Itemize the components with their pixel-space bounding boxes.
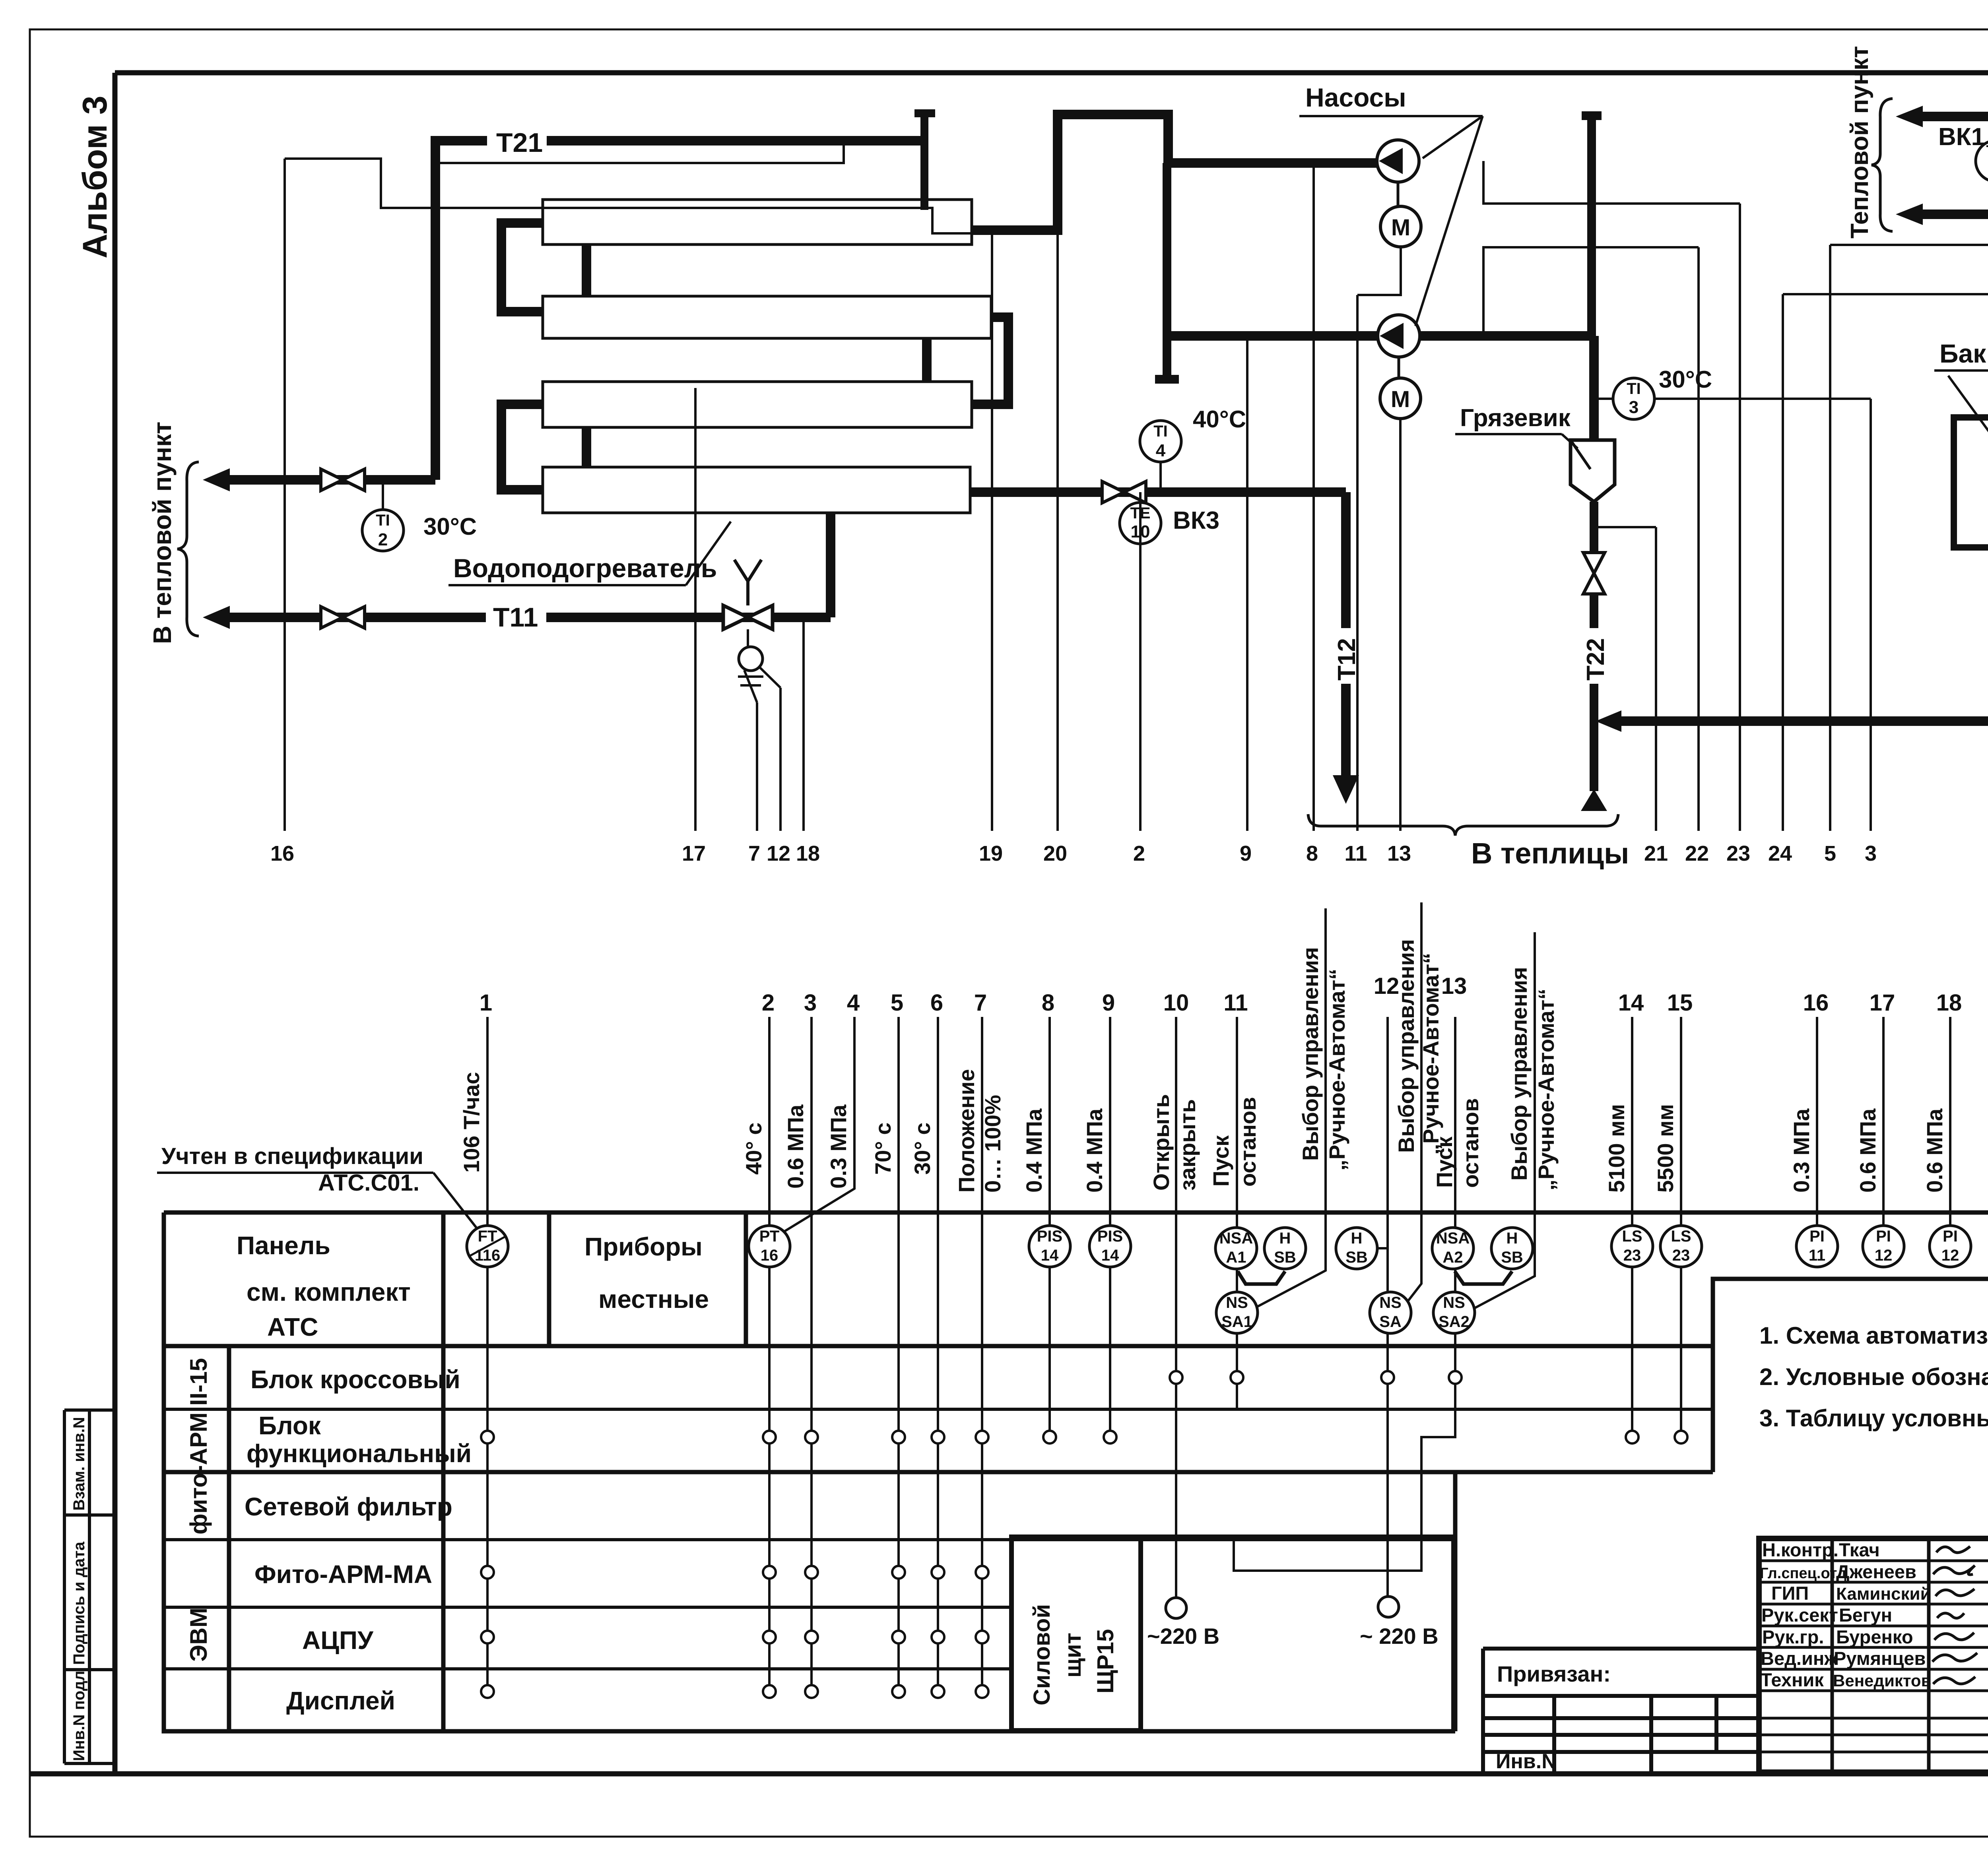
svg-text:Блок кроссовый: Блок кроссовый <box>250 1365 460 1394</box>
power supply circle 2 with ~220 В <box>1378 1597 1399 1617</box>
svg-text:8: 8 <box>1042 990 1054 1016</box>
svg-text:0.3 МПа: 0.3 МПа <box>826 1104 851 1189</box>
svg-text:Альбом 3: Альбом 3 <box>76 96 114 258</box>
thermometer TI2 <box>382 480 384 510</box>
svg-text:Н: Н <box>1279 1230 1291 1247</box>
table row line under panel row <box>164 1344 1713 1348</box>
svg-text:15: 15 <box>1667 990 1693 1016</box>
table outline <box>164 1212 1988 1731</box>
svg-text:Т21: Т21 <box>496 128 543 158</box>
title block columns signatures <box>1832 1538 1988 1772</box>
svg-text:14: 14 <box>1041 1247 1059 1264</box>
svg-text:3: 3 <box>1629 398 1639 417</box>
svg-text:NSА: NSА <box>1436 1230 1470 1247</box>
T21 dead-end pin <box>914 113 935 210</box>
svg-text:Буренко: Буренко <box>1836 1626 1913 1647</box>
pipe tank bottom return to Т22 <box>1615 547 1988 721</box>
rotated value labels <box>459 939 1988 1193</box>
table signal line 12 <box>1386 1017 1389 1597</box>
table row line under Сетевой фильтр <box>164 1538 1455 1541</box>
pump suction drop with dead end <box>1155 163 1179 379</box>
table signal line 17 <box>1882 1017 1885 1226</box>
signature roles and names <box>1760 1539 1931 1690</box>
svg-text:116: 116 <box>475 1247 501 1264</box>
svg-text:В теплицы: В теплицы <box>1471 837 1629 870</box>
wire 5 from TE9 <box>1830 182 1988 831</box>
table signal line 15 <box>1680 1017 1682 1437</box>
svg-text:ЭВМ: ЭВМ <box>185 1608 212 1662</box>
wire 7 with leader to valve positioner <box>744 670 757 831</box>
motor M1 <box>1397 182 1400 206</box>
svg-text:„Ручное-Автомат“: „Ручное-Автомат“ <box>1418 953 1443 1155</box>
svg-text:щит: щит <box>1060 1633 1086 1678</box>
svg-text:Гл.спец.отд: Гл.спец.отд <box>1760 1565 1846 1582</box>
gate valve on Т22 (vertical) <box>1583 553 1605 594</box>
svg-text:9: 9 <box>1102 990 1115 1016</box>
svg-text:30° с: 30° с <box>910 1123 935 1175</box>
svg-text:ТI: ТI <box>1627 380 1641 398</box>
table signal line 11 <box>1236 1017 1238 1409</box>
svg-text:SВ: SВ <box>1274 1249 1296 1266</box>
wire 13 from M2 <box>1399 419 1402 831</box>
svg-text:4: 4 <box>1156 441 1166 460</box>
svg-text:SА2: SА2 <box>1439 1313 1470 1331</box>
svg-text:7: 7 <box>748 842 760 865</box>
motor M2 <box>1398 357 1400 378</box>
svg-text:22: 22 <box>1685 842 1709 865</box>
svg-text:местные: местные <box>598 1285 709 1313</box>
pipe T21 stub to dead end <box>431 136 924 145</box>
svg-text:0.6 МПа: 0.6 МПа <box>1984 1108 1988 1193</box>
svg-text:А1: А1 <box>1226 1249 1246 1266</box>
instrument bubble LS23 b <box>1660 1226 1702 1267</box>
pipe pump2 suction line <box>1167 331 1594 341</box>
svg-text:Бегун: Бегун <box>1839 1604 1892 1626</box>
svg-text:17: 17 <box>682 842 706 865</box>
svg-text:Сетевой фильтр: Сетевой фильтр <box>245 1492 452 1521</box>
svg-text:Выбор управления: Выбор управления <box>1507 967 1532 1181</box>
pump 1 <box>1377 140 1419 182</box>
svg-text:11: 11 <box>1223 990 1248 1016</box>
wire 22 from pump2 tap <box>1483 247 1699 831</box>
svg-text:останов: останов <box>1458 1098 1483 1188</box>
svg-text:Рук.гр.: Рук.гр. <box>1762 1626 1824 1647</box>
heat exchanger section bar 4 <box>543 467 970 513</box>
svg-text:18: 18 <box>1936 990 1962 1016</box>
table signal line 9 <box>1109 1017 1111 1437</box>
svg-text:Блок: Блок <box>258 1411 321 1440</box>
svg-text:2. Условные обозначения прин: 2. Условные обозначения приняты по ГОСТ … <box>1759 1364 1988 1390</box>
instrument bubble NS SA1 <box>1216 1292 1258 1333</box>
wire 18 <box>802 617 805 831</box>
svg-text:5100 мм: 5100 мм <box>1604 1104 1629 1193</box>
svg-text:Дисплей: Дисплей <box>286 1686 395 1715</box>
selector wire A with slant to NS SA1 <box>1257 908 1326 1307</box>
svg-text:21: 21 <box>1644 842 1668 865</box>
svg-text:12: 12 <box>767 842 790 865</box>
table signal line 10 <box>1175 1017 1177 1598</box>
gate valve on T11 line <box>321 607 365 628</box>
svg-text:2: 2 <box>1133 842 1145 865</box>
instrument bubble H SB 3 <box>1491 1228 1533 1269</box>
svg-text:Учтен в спецификации: Учтен в спецификации <box>161 1143 423 1169</box>
instrument bubble NSA A1 <box>1215 1228 1257 1269</box>
svg-text:Взам. инв.N: Взам. инв.N <box>70 1417 88 1511</box>
svg-text:АЦПУ: АЦПУ <box>302 1626 374 1655</box>
wire 19 <box>991 235 993 831</box>
svg-text:М: М <box>1391 386 1410 412</box>
svg-text:13: 13 <box>1387 842 1411 865</box>
cell text Панель см. комплект АТС <box>237 1231 709 1715</box>
contact circles кроссовый row <box>1170 1371 1462 1384</box>
gauge PI12 line17 <box>1863 1226 1904 1267</box>
svg-text:6: 6 <box>930 990 943 1016</box>
svg-text:Грязевик: Грязевик <box>1460 404 1571 432</box>
pipe bar1 right riser to pump manifold <box>972 114 1377 230</box>
gauge PI11 line16 <box>1796 1226 1838 1267</box>
svg-text:Пуск: Пуск <box>1208 1135 1233 1187</box>
table signal line 14 <box>1631 1017 1633 1437</box>
wire jog above heat exchanger <box>285 159 972 233</box>
svg-text:Румянцев: Румянцев <box>1834 1648 1926 1669</box>
svg-text:8: 8 <box>1306 842 1318 865</box>
svg-text:14: 14 <box>1618 990 1644 1016</box>
wire 9 <box>1246 336 1248 831</box>
power supply circle 1 with ~220 В <box>1166 1598 1186 1618</box>
pipe left U-link bars 1-2 <box>501 223 544 312</box>
svg-text:Каминский: Каминский <box>1836 1584 1931 1604</box>
label Т22 (rotated) <box>1582 628 1607 684</box>
svg-text:АТС: АТС <box>267 1313 318 1341</box>
pipe right U-link bars 2-3 <box>972 317 1008 404</box>
pipe ВК3 line from bar4 to Т12 <box>970 492 1346 775</box>
instrument bubble NS SA2 <box>1433 1292 1475 1333</box>
svg-text:Открыть: Открыть <box>1149 1094 1174 1191</box>
svg-text:0.4 МПа: 0.4 МПа <box>1021 1108 1046 1193</box>
svg-text:см. комплект: см. комплект <box>247 1278 411 1306</box>
svg-text:0.6 МПа: 0.6 МПа <box>1922 1108 1947 1193</box>
table signal line 2 <box>768 1017 771 1692</box>
svg-text:Положение: Положение <box>954 1069 979 1193</box>
svg-text:2: 2 <box>378 530 388 549</box>
svg-text:10: 10 <box>1163 990 1189 1016</box>
table signal line 6 <box>937 1017 939 1692</box>
svg-text:РТ: РТ <box>759 1228 780 1245</box>
svg-text:16: 16 <box>1803 990 1829 1016</box>
wire 21 from Т22 <box>1596 527 1656 831</box>
svg-text:ВК3: ВК3 <box>1173 507 1219 534</box>
table signal line 3 <box>810 1017 813 1692</box>
brace Тепловой пункт <box>1872 99 1893 231</box>
instrument bubble PIS14 b <box>1089 1226 1131 1267</box>
table signal line 4 with slant to PT16 <box>784 1017 854 1232</box>
svg-text:Силовой: Силовой <box>1029 1604 1055 1705</box>
instrument bubble H SB 2 <box>1336 1228 1377 1269</box>
svg-text:106 Т/час: 106 Т/час <box>459 1072 484 1173</box>
svg-text:7: 7 <box>974 990 987 1016</box>
svg-text:Н: Н <box>1507 1230 1518 1247</box>
svg-text:~ 220 В: ~ 220 В <box>1360 1624 1439 1649</box>
svg-text:17: 17 <box>1870 990 1895 1016</box>
instrument bubble NSA A2 <box>1432 1228 1474 1269</box>
svg-text:30°С: 30°С <box>1659 366 1712 393</box>
svg-text:SА1: SА1 <box>1221 1313 1252 1331</box>
table row line under Фито-АРМ-МА <box>164 1606 1011 1609</box>
sensor TE10 <box>1120 502 1161 544</box>
pipe Т22 riser from pump2 line <box>1589 336 1599 441</box>
wire corridor to T21 stub <box>435 141 844 163</box>
bracket NSA A1 to H SB <box>1238 1271 1285 1284</box>
svg-text:LS: LS <box>1671 1228 1691 1245</box>
table signal line 8 <box>1048 1017 1051 1437</box>
svg-text:ТЕ: ТЕ <box>1986 142 1988 160</box>
selector wire C with slant to NS SA2 <box>1474 932 1535 1309</box>
notes list <box>1759 1322 1988 1432</box>
wire 16 <box>283 159 286 831</box>
label T21 left <box>487 127 547 154</box>
power cabinet ЩР15 label box <box>1011 1537 1141 1730</box>
svg-text:РI: РI <box>1809 1228 1825 1245</box>
svg-text:закрыть: закрыть <box>1175 1099 1200 1191</box>
selector wire B with slant to NS SA <box>1405 902 1421 1305</box>
svg-text:Выбор управления: Выбор управления <box>1298 947 1323 1161</box>
svg-text:5: 5 <box>891 990 903 1016</box>
gate valve on upper return line <box>321 469 365 491</box>
label Т12 (rotated) <box>1333 628 1358 684</box>
svg-text:0.3 МПа: 0.3 МПа <box>1789 1108 1814 1193</box>
arrow to heat point upper (В тепловой пункт) <box>223 475 435 485</box>
instrument bubble PIS14 a <box>1029 1226 1070 1267</box>
svg-text:16: 16 <box>270 842 294 865</box>
table signal line 13 with jog to power box <box>1234 1017 1455 1571</box>
pump manifold vertical right <box>1582 116 1602 336</box>
table signal line 1 <box>486 1017 489 1692</box>
svg-text:12: 12 <box>1941 1247 1959 1264</box>
svg-text:Инв.N подл: Инв.N подл <box>70 1671 88 1761</box>
pipe T21 riser at heat exchanger <box>431 141 440 480</box>
svg-text:4: 4 <box>847 990 860 1016</box>
svg-text:23: 23 <box>1623 1247 1641 1264</box>
svg-text:Приборы: Приборы <box>584 1232 703 1261</box>
title block outline <box>1759 1538 1988 1772</box>
svg-text:14: 14 <box>1101 1247 1119 1264</box>
heat exchanger section bar 3 <box>543 382 972 427</box>
svg-text:Н: Н <box>1351 1230 1363 1247</box>
svg-text:„Ручное-Автомат“: „Ручное-Автомат“ <box>1324 969 1349 1171</box>
pipe T11 lower line <box>223 513 831 617</box>
svg-text:40° с: 40° с <box>741 1123 766 1175</box>
svg-text:Техник: Техник <box>1761 1669 1824 1690</box>
svg-text:16: 16 <box>761 1247 779 1264</box>
svg-text:24: 24 <box>1768 842 1792 865</box>
svg-text:РIS: РIS <box>1037 1228 1062 1245</box>
svg-text:функциональный: функциональный <box>247 1439 472 1468</box>
wire 2 from TE10 <box>1139 492 1142 831</box>
table row line under Блок кроссовый <box>164 1408 1713 1411</box>
pump 2 <box>1378 315 1420 357</box>
svg-text:ЩР15: ЩР15 <box>1093 1629 1118 1694</box>
power box outline <box>1141 1537 1454 1731</box>
svg-text:23: 23 <box>1726 842 1750 865</box>
gate valve ВК3 <box>1102 481 1146 503</box>
arrow Т22 from tank (up triangle) <box>1581 789 1607 811</box>
control valve У on T11 <box>723 605 773 629</box>
table signal line 18 <box>1949 1017 1951 1226</box>
svg-text:Т22: Т22 <box>1582 638 1609 681</box>
pipe left U-link bars 3-4 <box>501 404 544 490</box>
svg-text:М: М <box>1391 215 1410 241</box>
svg-text:20: 20 <box>1043 842 1067 865</box>
svg-text:А2: А2 <box>1442 1249 1463 1266</box>
pipe Т11 right (to heat networks) <box>1920 112 1988 121</box>
svg-text:0.6 МПа: 0.6 МПа <box>783 1104 808 1189</box>
svg-text:~220 В: ~220 В <box>1147 1624 1219 1649</box>
svg-text:NSА: NSА <box>1219 1230 1253 1247</box>
instrument bubble H SB 1 <box>1264 1228 1306 1269</box>
svg-text:ТI: ТI <box>1153 423 1168 440</box>
svg-text:SВ: SВ <box>1345 1249 1368 1266</box>
svg-text:Т11: Т11 <box>493 602 538 632</box>
svg-text:Дженеев: Дженеев <box>1836 1561 1916 1582</box>
gauge PI12 line18 <box>1930 1226 1971 1267</box>
svg-text:12: 12 <box>1875 1247 1893 1264</box>
svg-text:Пуск: Пуск <box>1432 1136 1457 1188</box>
svg-text:0.6 МПа: 0.6 МПа <box>1855 1108 1880 1193</box>
svg-text:40°С: 40°С <box>1193 406 1246 433</box>
contact circles функциональный row <box>481 1431 1687 1443</box>
signature squiggles <box>1932 1546 1977 1684</box>
table signal line 5 <box>897 1017 900 1692</box>
svg-text:NS: NS <box>1226 1294 1248 1311</box>
svg-text:2: 2 <box>762 990 775 1016</box>
svg-text:NS: NS <box>1379 1294 1402 1311</box>
svg-text:РIS: РIS <box>1097 1228 1123 1245</box>
instrument bubble PT16 <box>749 1226 790 1267</box>
svg-text:3: 3 <box>1865 842 1877 865</box>
brace В тепловой пункт <box>177 462 199 636</box>
table wire numbers row <box>480 973 1988 1016</box>
svg-text:Вед.инж: Вед.инж <box>1761 1648 1838 1669</box>
thermometer TI3 <box>1594 398 1613 400</box>
table signal line 7 <box>981 1017 983 1692</box>
brace В теплицы <box>1308 814 1618 836</box>
svg-text:13: 13 <box>1441 973 1467 999</box>
heat exchanger section bar 2 <box>543 296 991 338</box>
svg-text:Рук.сект: Рук.сект <box>1761 1604 1838 1626</box>
svg-text:5500 мм: 5500 мм <box>1653 1104 1678 1193</box>
contact circles Дисплей row <box>481 1685 988 1698</box>
svg-text:Привязан:: Привязан: <box>1497 1661 1611 1686</box>
svg-text:ВК1: ВК1 <box>1938 123 1985 151</box>
wire 17 <box>694 388 697 831</box>
svg-text:0… 100%: 0… 100% <box>980 1095 1005 1193</box>
title block signature rows <box>1759 1561 1988 1752</box>
pipe inner link bar3-bar4 <box>582 427 591 467</box>
svg-text:1. Схема автоматизации выпол: 1. Схема автоматизации выполнена на осно… <box>1759 1322 1988 1349</box>
pipe link bar2-bar3 <box>922 338 932 382</box>
svg-text:Водоподогреватель: Водоподогреватель <box>453 553 717 583</box>
svg-text:NS: NS <box>1443 1294 1465 1311</box>
svg-text:Насосы: Насосы <box>1305 83 1406 112</box>
svg-text:0.4 МПа: 0.4 МПа <box>1082 1108 1107 1193</box>
table signal line 16 <box>1816 1017 1818 1226</box>
svg-text:Тепловой пункт: Тепловой пункт <box>1846 46 1873 239</box>
svg-text:3: 3 <box>804 990 817 1016</box>
svg-text:РI: РI <box>1876 1228 1891 1245</box>
svg-text:ГИП: ГИП <box>1771 1583 1809 1604</box>
svg-text:Н.контр.: Н.контр. <box>1762 1539 1839 1560</box>
wire 23 from pump1 tap <box>1483 161 1740 831</box>
svg-text:19: 19 <box>979 842 1003 865</box>
svg-text:SВ: SВ <box>1501 1249 1523 1266</box>
label T11 left <box>486 601 546 629</box>
valve positioner circle below У <box>747 629 749 646</box>
mud trap Грязевик <box>1571 440 1615 502</box>
table row line under АЦПУ <box>164 1667 1011 1670</box>
pipe inner link bar1-bar2 <box>582 244 591 296</box>
svg-text:останов: останов <box>1235 1097 1260 1187</box>
svg-text:Фито-АРМ-МА: Фито-АРМ-МА <box>254 1560 432 1589</box>
svg-text:Венедиктов: Венедиктов <box>1833 1671 1931 1690</box>
svg-text:ТI: ТI <box>376 512 390 529</box>
instrument bubble NS SA <box>1370 1292 1411 1333</box>
svg-text:5: 5 <box>1824 842 1836 865</box>
wire 11 from M1 <box>1357 247 1401 831</box>
contact circles Фито-АРМ-МА row <box>481 1566 988 1579</box>
bracket NSA A2 to H SB <box>1455 1271 1512 1284</box>
svg-text:Бак: Бак <box>1939 339 1986 368</box>
svg-text:„Ручное-Автомат“: „Ручное-Автомат“ <box>1534 989 1559 1191</box>
svg-text:Подпись и дата: Подпись и дата <box>70 1541 88 1665</box>
svg-text:11: 11 <box>1344 842 1367 865</box>
svg-text:В тепловой пункт: В тепловой пункт <box>148 422 177 644</box>
svg-text:9: 9 <box>1240 842 1252 865</box>
svg-text:1: 1 <box>480 990 492 1016</box>
svg-text:Выбор управления: Выбор управления <box>1394 939 1419 1153</box>
svg-text:11: 11 <box>1809 1247 1825 1264</box>
svg-text:фито-АРМ II-15: фито-АРМ II-15 <box>185 1358 212 1534</box>
wire 20 <box>1056 235 1059 831</box>
instrument bubble LS23 a <box>1611 1226 1653 1267</box>
svg-text:30°С: 30°С <box>423 513 477 540</box>
heat exchanger Водоподогреватель: section bar 1 <box>543 200 972 244</box>
instrument bubble FT116 <box>467 1226 508 1267</box>
svg-text:23: 23 <box>1672 1247 1690 1264</box>
contact circles АЦПУ row <box>481 1631 988 1643</box>
wire 24 from Т11 tap <box>1783 116 1988 831</box>
attachment box Привязан <box>1483 1649 1759 1772</box>
svg-text:18: 18 <box>796 842 820 865</box>
tank Бак <box>1954 417 1988 547</box>
left margin stamp boxes <box>64 1410 115 1763</box>
svg-text:Панель: Панель <box>237 1231 330 1260</box>
svg-text:Ткач: Ткач <box>1839 1539 1880 1560</box>
svg-text:РI: РI <box>1943 1228 1958 1245</box>
pipe Т21 right <box>1920 210 1988 219</box>
wire 8 <box>1312 163 1315 831</box>
scheme wire numbers row <box>270 842 1988 865</box>
wire 3 from TI3 <box>1654 399 1871 831</box>
table row line under Блок функциональный <box>164 1470 1713 1474</box>
svg-text:Инв.N: Инв.N <box>1496 1750 1557 1773</box>
table inner verticals <box>229 1212 746 1731</box>
wire 12 scheme with leader <box>759 666 780 831</box>
svg-text:LS: LS <box>1622 1228 1642 1245</box>
pipe Т22 below mud trap <box>1590 502 1598 791</box>
svg-text:70° с: 70° с <box>870 1123 895 1175</box>
arrow T12 to greenhouses <box>1333 775 1359 804</box>
svg-text:3. Таблицу условных обозначе: 3. Таблицу условных обозначений см. лист… <box>1759 1405 1988 1432</box>
